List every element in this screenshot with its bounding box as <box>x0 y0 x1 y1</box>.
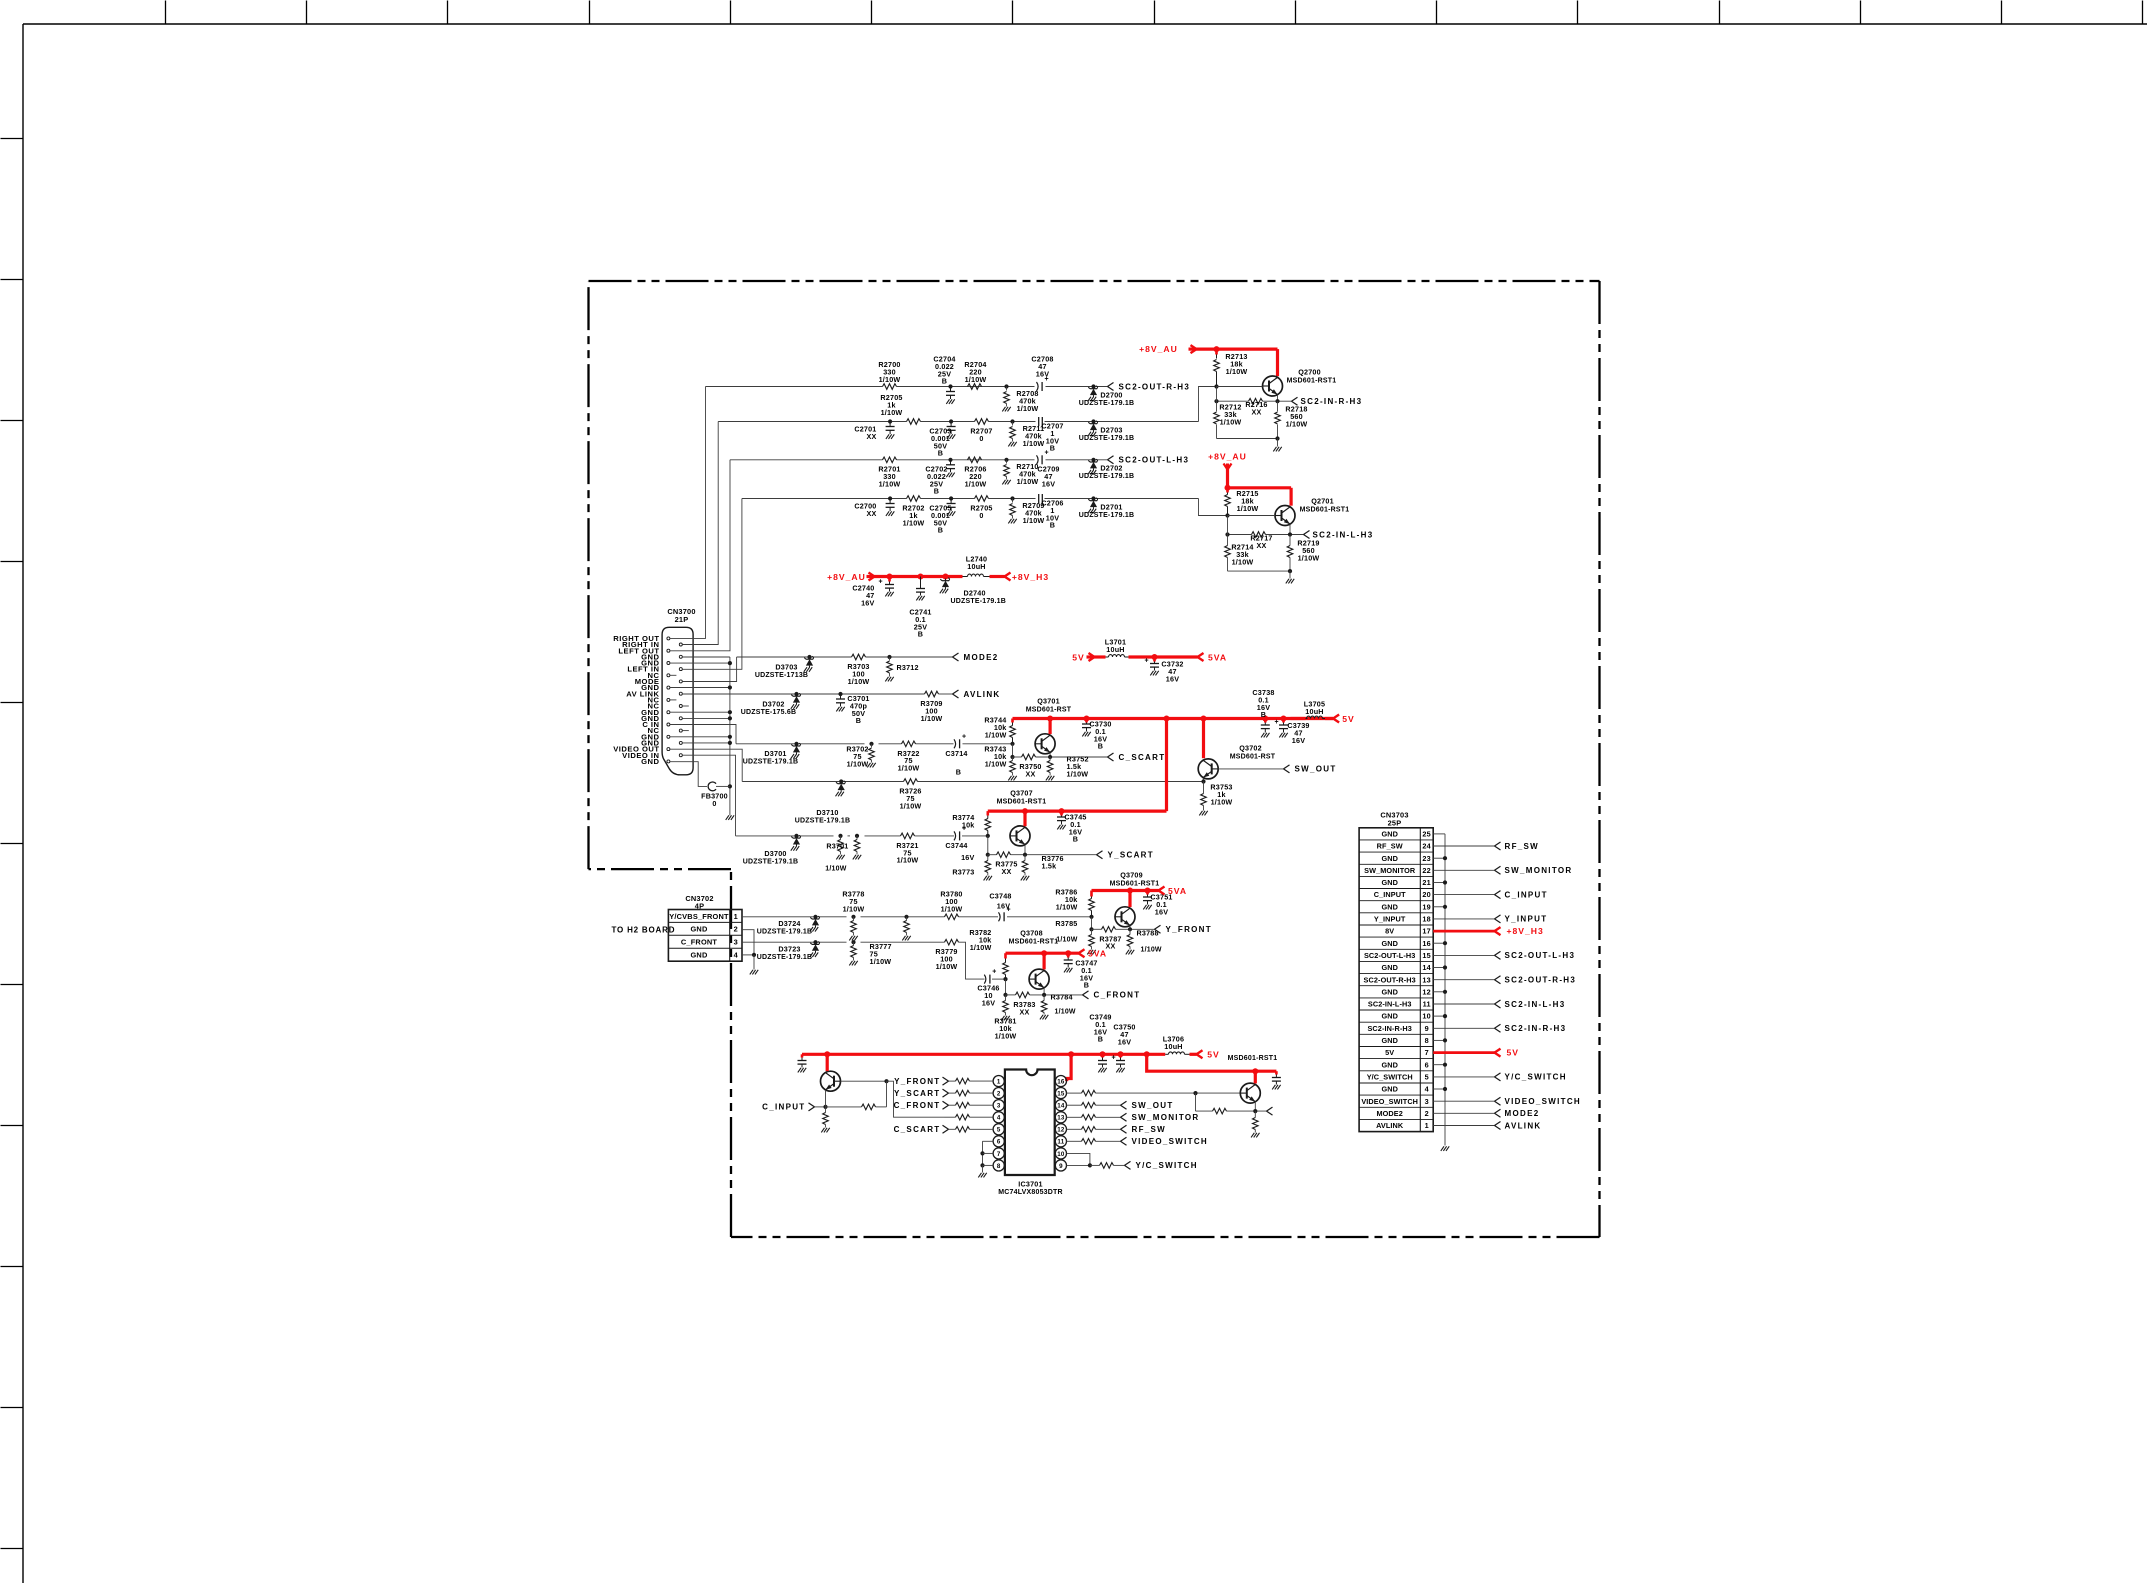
svg-text:B: B <box>956 768 961 777</box>
svg-text:1/10W: 1/10W <box>897 856 919 865</box>
signal flag Y/C_SWITCH from pin9 <box>1067 1164 1090 1166</box>
signal flag SW_MONITOR pin 22 <box>1433 869 1494 871</box>
svg-text:+8V_AU: +8V_AU <box>1139 344 1178 354</box>
wire SC2-IN-L row <box>1228 534 1252 536</box>
resistor R3726 75 <box>904 779 918 785</box>
svg-text:1/10W: 1/10W <box>985 730 1007 739</box>
5V bus upper <box>1013 717 1334 720</box>
capacitor C3749 0.1 <box>1101 1054 1104 1057</box>
svg-text:5VA: 5VA <box>1088 949 1107 959</box>
svg-text:3: 3 <box>734 938 738 947</box>
wire C_FRONT line <box>742 941 847 943</box>
capacitor C2741 0.1 25V <box>920 577 922 589</box>
svg-text:16V: 16V <box>1166 674 1179 683</box>
svg-text:1/10W: 1/10W <box>936 962 958 971</box>
wire 5VA rail <box>1129 655 1198 658</box>
wire Q2701 base <box>1228 515 1276 517</box>
svg-text:4: 4 <box>997 1115 1001 1122</box>
svg-text:+: + <box>962 733 966 740</box>
svg-text:GND: GND <box>1381 939 1398 948</box>
wire AVLINK line <box>797 693 925 695</box>
svg-text:1/10W: 1/10W <box>843 904 865 913</box>
svg-text:1/10W: 1/10W <box>970 943 992 952</box>
arrow flag right transistor <box>1267 1107 1273 1111</box>
svg-text:16V: 16V <box>961 853 974 862</box>
svg-text:SC2-IN-L-H3: SC2-IN-L-H3 <box>1368 1000 1412 1009</box>
svg-text:Q3709: Q3709 <box>1120 871 1143 880</box>
svg-text:SC2-OUT-L-H3: SC2-OUT-L-H3 <box>1505 951 1576 960</box>
signal flag RF_SW from pin12 <box>1067 1128 1082 1130</box>
wire R3726 row <box>742 781 903 783</box>
svg-text:C_SCART: C_SCART <box>894 1125 941 1134</box>
svg-text:C_INPUT: C_INPUT <box>1505 890 1548 899</box>
svg-text:1/10W: 1/10W <box>825 866 846 873</box>
power net 5V bottom flag <box>1190 1053 1197 1056</box>
resistor R3784 to ground <box>1043 995 1045 1001</box>
signal flag Y_INPUT pin 18 <box>1433 918 1494 920</box>
svg-text:16V: 16V <box>1155 907 1168 916</box>
svg-text:1/10W: 1/10W <box>1237 504 1259 513</box>
wire +8V_AU rail <box>867 575 875 578</box>
wire +8V_AU drop to Q2700 collector <box>1276 349 1279 376</box>
svg-text:10k: 10k <box>962 820 975 829</box>
resistor R2700 330 <box>883 384 897 390</box>
svg-text:SC2-OUT-R-H3: SC2-OUT-R-H3 <box>1505 976 1577 985</box>
svg-text:B: B <box>1050 521 1055 530</box>
resistor R2702 1k <box>907 496 921 502</box>
svg-text:AVLINK: AVLINK <box>964 690 1001 699</box>
NC pin stubs <box>670 674 677 676</box>
capacitor C2702 0.022 <box>948 458 952 462</box>
svg-text:1/10W: 1/10W <box>1017 477 1039 486</box>
svg-text:XX: XX <box>1257 541 1267 550</box>
wire pin8 MODE riser <box>682 657 736 682</box>
svg-text:MSD601-RST1: MSD601-RST1 <box>997 798 1047 805</box>
svg-text:5: 5 <box>1425 1073 1429 1082</box>
svg-text:MODE2: MODE2 <box>1505 1109 1540 1118</box>
wire Q3704 collector red <box>1254 1071 1257 1083</box>
svg-text:D3700: D3700 <box>764 849 786 858</box>
svg-text:14: 14 <box>1057 1103 1065 1110</box>
resistor R3776 1.5k to ground <box>1024 855 1026 861</box>
svg-text:MODE2: MODE2 <box>964 653 999 662</box>
resistor R3722 75 <box>902 741 916 747</box>
zener diode D3723 <box>813 940 817 944</box>
resistor R2706 220 <box>968 457 982 463</box>
svg-text:16V: 16V <box>982 998 995 1007</box>
svg-text:2: 2 <box>734 925 738 934</box>
resistor R2710 470k to ground <box>1004 458 1008 462</box>
transistor Q3709 <box>1115 907 1135 927</box>
svg-text:16V: 16V <box>1042 479 1055 488</box>
svg-text:5VA: 5VA <box>1168 886 1187 896</box>
svg-text:RF_SW: RF_SW <box>1505 842 1540 851</box>
svg-text:4P: 4P <box>695 902 704 911</box>
inductor L3706 10uH <box>1165 1053 1168 1055</box>
svg-text:13: 13 <box>1057 1115 1065 1122</box>
svg-text:1/10W: 1/10W <box>1211 797 1233 806</box>
zener diode D2740 <box>945 579 947 581</box>
svg-text:1/10W: 1/10W <box>1055 1009 1076 1016</box>
svg-text:16V: 16V <box>1118 1037 1131 1046</box>
ground CN3703 bus <box>1441 1146 1444 1151</box>
svg-text:5V: 5V <box>1385 1048 1394 1057</box>
svg-text:11: 11 <box>1423 1000 1431 1009</box>
wire MODE2 line <box>737 656 852 658</box>
wire audio line1 RIGHT OUT <box>706 386 883 388</box>
svg-text:12: 12 <box>1057 1127 1065 1134</box>
svg-text:SW_OUT: SW_OUT <box>1295 765 1337 774</box>
svg-text:D2703: D2703 <box>1100 426 1122 435</box>
svg-text:13: 13 <box>1422 975 1431 984</box>
svg-text:1/10W: 1/10W <box>879 479 901 488</box>
svg-text:10uH: 10uH <box>1164 1042 1182 1051</box>
svg-text:UDZSTE-179.1B: UDZSTE-179.1B <box>1079 435 1135 442</box>
svg-text:C_FRONT: C_FRONT <box>681 938 718 947</box>
svg-text:1/10W: 1/10W <box>898 764 920 773</box>
svg-text:D2702: D2702 <box>1100 464 1122 473</box>
svg-text:6: 6 <box>997 1139 1001 1146</box>
dashed schematic boundary <box>589 280 1600 282</box>
svg-text:GND: GND <box>1381 987 1398 996</box>
signal flag C_FRONT <box>1083 991 1089 995</box>
svg-text:GND: GND <box>1381 830 1398 839</box>
svg-text:GND: GND <box>1381 902 1398 911</box>
power net 5VA mid flag <box>1198 653 1204 657</box>
svg-text:1/10W: 1/10W <box>903 518 925 527</box>
resistor R2715 18k <box>1226 488 1229 493</box>
node Q3708 base <box>1003 977 1007 981</box>
capacitor C3739 47 <box>1282 719 1285 723</box>
svg-text:1/10W: 1/10W <box>965 375 987 384</box>
wire line4 riser to Q2701 base <box>1199 499 1228 516</box>
svg-text:R3712: R3712 <box>897 663 919 672</box>
svg-text:4: 4 <box>734 951 739 960</box>
svg-text:SC2-OUT-R-H3: SC2-OUT-R-H3 <box>1119 382 1191 391</box>
resistor R2708 470k to ground <box>1004 384 1008 388</box>
svg-text:Y_SCART: Y_SCART <box>894 1089 940 1098</box>
svg-text:1: 1 <box>1425 1121 1429 1130</box>
svg-text:UDZSTE-179.1B: UDZSTE-179.1B <box>743 759 799 766</box>
svg-text:GND: GND <box>1381 878 1398 887</box>
zener diode D3724 <box>813 915 817 919</box>
inductor L2740 10uH <box>963 576 968 578</box>
svg-text:3: 3 <box>997 1103 1001 1110</box>
zener diode D3703 <box>807 655 811 659</box>
svg-text:5V: 5V <box>1507 1048 1520 1058</box>
svg-text:16: 16 <box>1057 1079 1065 1086</box>
wire Q2701 emitter <box>1289 524 1291 534</box>
border frame left <box>22 24 24 1584</box>
svg-text:Q3702: Q3702 <box>1239 744 1262 753</box>
svg-text:24: 24 <box>1422 842 1431 851</box>
frame tick marks left <box>1 138 24 140</box>
resistor R3780 100 <box>945 914 959 920</box>
svg-text:MC74LVX8053DTR: MC74LVX8053DTR <box>998 1189 1063 1196</box>
resistor R3701 to ground <box>838 834 842 838</box>
svg-text:B: B <box>1098 1035 1103 1044</box>
wire IC pins 6-7-8 ground bracket <box>983 1140 994 1142</box>
svg-text:RF_SW: RF_SW <box>1377 842 1403 851</box>
resistor unnamed2 to ground <box>904 915 908 919</box>
capacitor C3745 0.1 <box>1060 811 1063 815</box>
svg-text:6: 6 <box>1425 1060 1429 1069</box>
signal flag MODE2 <box>953 653 959 657</box>
svg-text:C3748: C3748 <box>989 892 1011 901</box>
svg-text:Y_SCART: Y_SCART <box>1108 851 1154 860</box>
wire pin19 VIDEO OUT riser <box>670 749 742 781</box>
svg-text:SC2-IN-R-H3: SC2-IN-R-H3 <box>1505 1024 1567 1033</box>
power net 5V right flag <box>1325 717 1333 720</box>
svg-text:SC2-IN-R-H3: SC2-IN-R-H3 <box>1301 397 1363 406</box>
svg-text:16V: 16V <box>861 598 874 607</box>
svg-text:B: B <box>942 377 947 386</box>
capacitor C2706 1 10V <box>1038 494 1040 503</box>
svg-text:1/10W: 1/10W <box>965 479 987 488</box>
svg-text:UDZSTE-175.6B: UDZSTE-175.6B <box>741 709 797 716</box>
resistor R3781 10k to ground <box>1005 995 1007 1001</box>
resistor R2705 1k <box>907 419 921 425</box>
svg-text:GND: GND <box>1381 1085 1398 1094</box>
resistor R3785 to ground <box>1091 929 1093 934</box>
wire pin15 to right transistor base <box>1067 1092 1082 1094</box>
wire line2 riser to Q2700 base <box>1199 387 1217 422</box>
svg-text:8: 8 <box>1425 1036 1429 1045</box>
svg-text:UDZSTE-179.1B: UDZSTE-179.1B <box>795 818 851 825</box>
IC IC3701 pin circles left <box>993 1076 1004 1087</box>
svg-text:XX: XX <box>1252 407 1262 416</box>
wire Q3702 emitter <box>1202 778 1204 781</box>
resistor R3752 1.5k to ground <box>1049 757 1051 761</box>
svg-text:UDZSTE-179.1B: UDZSTE-179.1B <box>1079 473 1135 480</box>
wire Q2700 base <box>1217 386 1263 388</box>
svg-text:D3701: D3701 <box>764 749 786 758</box>
svg-text:1: 1 <box>997 1079 1001 1086</box>
svg-text:VIDEO_SWITCH: VIDEO_SWITCH <box>1132 1137 1209 1146</box>
svg-text:SW_OUT: SW_OUT <box>1132 1101 1174 1110</box>
wire Q3704 feedback row <box>1195 1093 1197 1111</box>
svg-text:GND: GND <box>1381 854 1398 863</box>
wire 5V drop to Q3702 collector <box>1202 719 1205 759</box>
svg-text:Y/CVBS_FRONT: Y/CVBS_FRONT <box>669 912 729 921</box>
svg-text:1/10W: 1/10W <box>1141 947 1162 954</box>
svg-text:Y_FRONT: Y_FRONT <box>1166 925 1212 934</box>
svg-text:1/10W: 1/10W <box>881 408 903 417</box>
node Q3701 base <box>1010 742 1014 746</box>
resistor R3777 75 to ground <box>851 940 855 944</box>
wire CN3702 gnd pins <box>742 930 754 955</box>
svg-text:D3702: D3702 <box>762 699 784 708</box>
resistor R3750 XX <box>1022 754 1036 760</box>
IC IC3701 body outline <box>1005 1070 1055 1176</box>
svg-text:1/10W: 1/10W <box>1298 553 1320 562</box>
wire pin10 AV LINK <box>682 693 796 695</box>
inductor L3701 10uH <box>1106 656 1109 658</box>
wire pin3 LEFT OUT riser <box>670 460 730 651</box>
svg-text:Q3707: Q3707 <box>1010 789 1033 798</box>
svg-text:GND: GND <box>1381 1036 1398 1045</box>
signal flag Y_SCART <box>1097 851 1103 855</box>
capacitor C3701 470p <box>838 692 842 696</box>
signal flag SW_OUT from pin14 <box>1067 1104 1082 1106</box>
svg-text:XX: XX <box>867 509 877 518</box>
svg-text:B: B <box>1050 444 1055 453</box>
connector CN3703 25P table <box>1359 828 1433 1132</box>
svg-text:D2701: D2701 <box>1100 503 1122 512</box>
signal flag MODE2 pin 2 <box>1433 1112 1494 1114</box>
svg-text:15: 15 <box>1057 1091 1065 1098</box>
svg-text:GND: GND <box>690 925 707 934</box>
zener diode D3701 <box>794 742 798 746</box>
svg-text:UDZSTE-179.1B: UDZSTE-179.1B <box>757 954 813 961</box>
resistor R3787 XX <box>1102 927 1116 933</box>
resistor R3721 75 <box>901 833 915 839</box>
svg-text:25P: 25P <box>1388 818 1402 827</box>
ferrite bead FB3700 <box>670 762 707 787</box>
svg-text:8V: 8V <box>1385 927 1394 936</box>
inductor L3705 10uH <box>1291 717 1306 720</box>
wire pin2 RIGHT IN riser <box>682 422 718 645</box>
svg-text:SC2-IN-R-H3: SC2-IN-R-H3 <box>1367 1024 1411 1033</box>
svg-text:8: 8 <box>997 1163 1001 1170</box>
zener diode D2700 <box>1091 384 1095 388</box>
svg-text:1/10W: 1/10W <box>1220 417 1242 426</box>
resistor R2709 470k to ground <box>1010 496 1014 500</box>
svg-text:2: 2 <box>1425 1109 1429 1118</box>
svg-text:21: 21 <box>1422 878 1431 887</box>
svg-text:MSD601-RST1: MSD601-RST1 <box>1228 1055 1278 1062</box>
svg-text:17: 17 <box>1422 927 1431 936</box>
resistor R3786 10k <box>1090 891 1093 897</box>
svg-text:7: 7 <box>1425 1048 1429 1057</box>
svg-text:D2740: D2740 <box>964 589 986 598</box>
wire bottom 5V bus <box>802 1053 1165 1056</box>
signal flag SC2-IN-L-H3 pin 11 <box>1433 1003 1494 1005</box>
wire C_SCART chain <box>736 743 865 745</box>
signal flag SC2-IN-R-H3 pin 9 <box>1433 1027 1494 1029</box>
svg-text:R3701: R3701 <box>826 842 848 851</box>
wire Q3707 rows <box>987 836 989 855</box>
svg-text:GND: GND <box>1381 963 1398 972</box>
resistor Q3704 emitter to ground <box>1254 1111 1256 1117</box>
resistor R2719 560 <box>1289 535 1291 546</box>
svg-text:Y_INPUT: Y_INPUT <box>1505 915 1548 924</box>
transistor Q2700 <box>1263 376 1283 396</box>
svg-text:SC2-OUT-L-H3: SC2-OUT-L-H3 <box>1119 456 1190 465</box>
svg-text:B: B <box>938 449 943 458</box>
svg-text:5V: 5V <box>1072 652 1085 662</box>
svg-text:16V: 16V <box>997 902 1010 911</box>
ground IC pins 6-8 <box>978 1173 981 1178</box>
resistor R3712 to ground <box>887 655 891 659</box>
wire Q3708 rows <box>1005 979 1007 995</box>
svg-text:Q2700: Q2700 <box>1298 368 1321 377</box>
svg-text:1/10W: 1/10W <box>1232 557 1254 566</box>
resistor R3702 75 to ground <box>869 742 873 746</box>
svg-text:23: 23 <box>1422 854 1431 863</box>
wire to pin4 resistor <box>945 1116 956 1118</box>
svg-text:UDZSTE-1713B: UDZSTE-1713B <box>755 672 808 679</box>
connector CN3700 21P shell <box>662 627 693 775</box>
svg-text:1/10W: 1/10W <box>1023 439 1045 448</box>
svg-text:SC2-OUT-L-H3: SC2-OUT-L-H3 <box>1364 951 1415 960</box>
capacitor C2703 0.001 <box>949 419 953 423</box>
ground CN3700 bus <box>726 815 729 820</box>
svg-text:UDZSTE-179.1B: UDZSTE-179.1B <box>951 598 1007 605</box>
resistor R2707 0 <box>975 419 989 425</box>
signal flag VIDEO_SWITCH from pin11 <box>1067 1140 1082 1142</box>
power net +8V_H3 <box>990 575 1005 578</box>
svg-text:GND: GND <box>690 951 707 960</box>
capacitor C3748 <box>999 912 1001 921</box>
wire 5V to 5VA bus vertical <box>1165 719 1168 812</box>
signal flag SC2-IN-R-H3 <box>1292 397 1298 401</box>
capacitor C3738 0.1 <box>1264 719 1267 723</box>
svg-text:1/10W: 1/10W <box>1056 902 1078 911</box>
svg-text:GND: GND <box>1381 1012 1398 1021</box>
svg-text:1/10W: 1/10W <box>1017 404 1039 413</box>
wire pin6 LEFT IN riser <box>682 499 742 670</box>
capacitor right branch end <box>1275 1071 1278 1074</box>
capacitor C2709 47 16V <box>1037 455 1039 464</box>
wire CN3703 ground bus <box>1433 833 1445 835</box>
transistor Q3707 <box>1010 826 1030 846</box>
svg-text:1/10W: 1/10W <box>847 759 869 768</box>
signal flag Y_FRONT <box>1155 925 1161 929</box>
capacitor C3747 0.1 <box>1067 953 1070 957</box>
svg-text:19: 19 <box>1422 902 1431 911</box>
svg-text:22: 22 <box>1422 866 1431 875</box>
ground CN3702 <box>750 970 753 975</box>
svg-text:25: 25 <box>1422 830 1431 839</box>
IC IC3701 pin circles right <box>1055 1160 1066 1171</box>
ground Q2701 cell <box>1286 579 1289 584</box>
svg-text:MSD601-RST: MSD601-RST <box>1026 706 1072 713</box>
svg-text:XX: XX <box>1002 867 1012 876</box>
svg-text:XX: XX <box>1020 1007 1030 1016</box>
capacitor C3751 0.1 <box>1146 891 1149 895</box>
signal flag Y/C_SWITCH pin 5 <box>1433 1076 1494 1078</box>
power net 5VA lower flag <box>1079 949 1085 953</box>
svg-text:MSD601-RST1: MSD601-RST1 <box>1300 506 1350 513</box>
node Q2700 base <box>1214 384 1218 388</box>
svg-text:10uH: 10uH <box>1305 707 1323 716</box>
svg-text:18: 18 <box>1422 915 1431 924</box>
svg-text:15: 15 <box>1422 951 1431 960</box>
capacitor C2707 1 10V <box>1038 417 1040 426</box>
svg-text:D3703: D3703 <box>775 662 797 671</box>
resistor R2712 33k <box>1216 401 1218 411</box>
svg-text:B: B <box>934 487 939 496</box>
svg-text:MSD601-RST1: MSD601-RST1 <box>1009 938 1059 945</box>
node Q3709 base <box>1089 915 1093 919</box>
resistor R3744 10k <box>1011 719 1014 723</box>
resistor R3788 to ground <box>1129 929 1131 934</box>
resistor Q3703 emitter to ground <box>825 1107 827 1113</box>
resistor R2705b 0 <box>975 496 989 502</box>
svg-text:UDZSTE-179.1B: UDZSTE-179.1B <box>743 859 799 866</box>
capacitor C2701 XX <box>888 419 892 423</box>
wire Q2700 emitter <box>1277 395 1279 401</box>
5VA bus for Q3707 <box>988 809 1167 812</box>
wire Q3707 collector <box>1023 811 1026 826</box>
svg-text:MSD601-RST1: MSD601-RST1 <box>1287 377 1337 384</box>
svg-text:MSD601-RST1: MSD601-RST1 <box>1110 880 1160 887</box>
signal flag SW_OUT <box>1284 765 1290 769</box>
zener diode D2703 <box>1091 419 1095 423</box>
capacitor C2705 0.001 <box>949 496 953 500</box>
transistor Q3701 <box>1035 734 1055 754</box>
